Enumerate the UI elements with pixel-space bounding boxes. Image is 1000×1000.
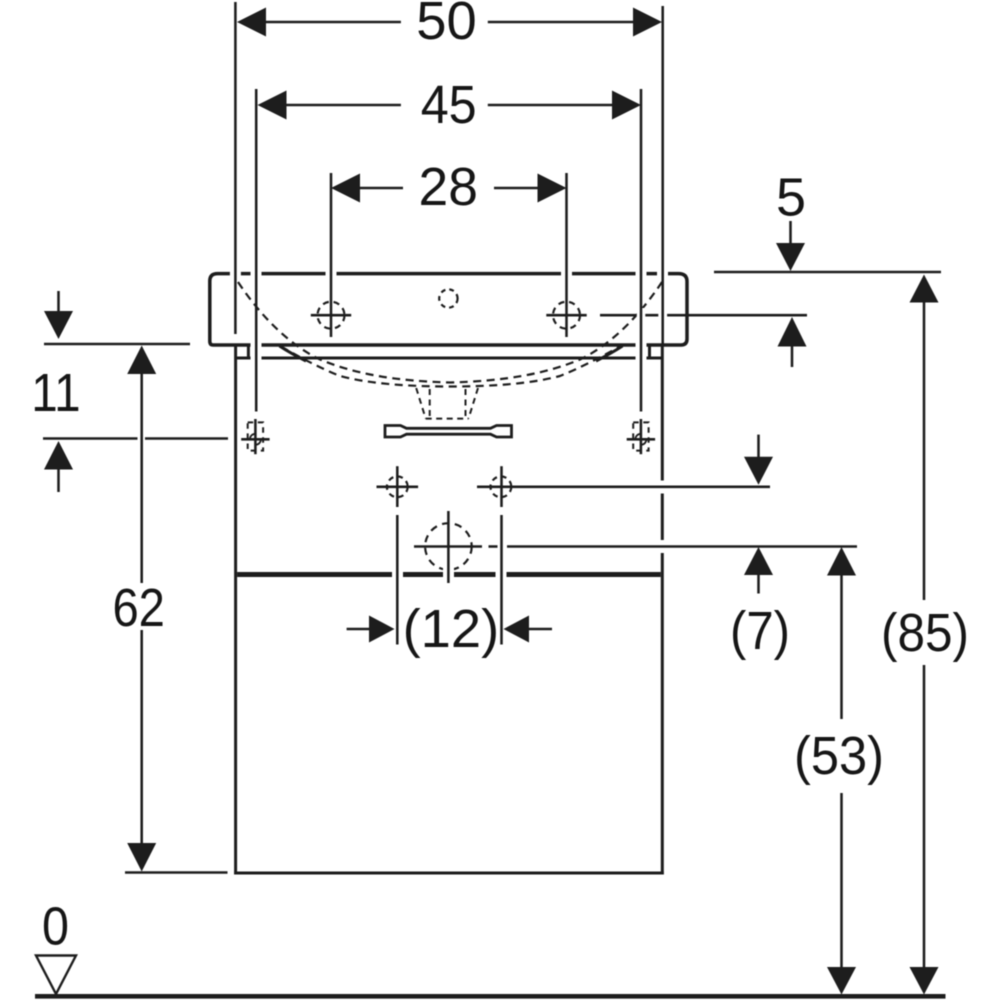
svg-text:62: 62 (112, 578, 165, 638)
svg-text:(12): (12) (403, 599, 500, 659)
svg-text:11: 11 (31, 363, 80, 423)
svg-text:28: 28 (419, 157, 478, 217)
svg-text:45: 45 (421, 75, 477, 135)
svg-text:50: 50 (416, 0, 477, 51)
svg-text:(7): (7) (730, 601, 790, 661)
svg-text:(53): (53) (794, 726, 884, 786)
svg-text:0: 0 (42, 897, 69, 957)
svg-text:(85): (85) (881, 603, 969, 663)
svg-text:5: 5 (776, 168, 806, 228)
